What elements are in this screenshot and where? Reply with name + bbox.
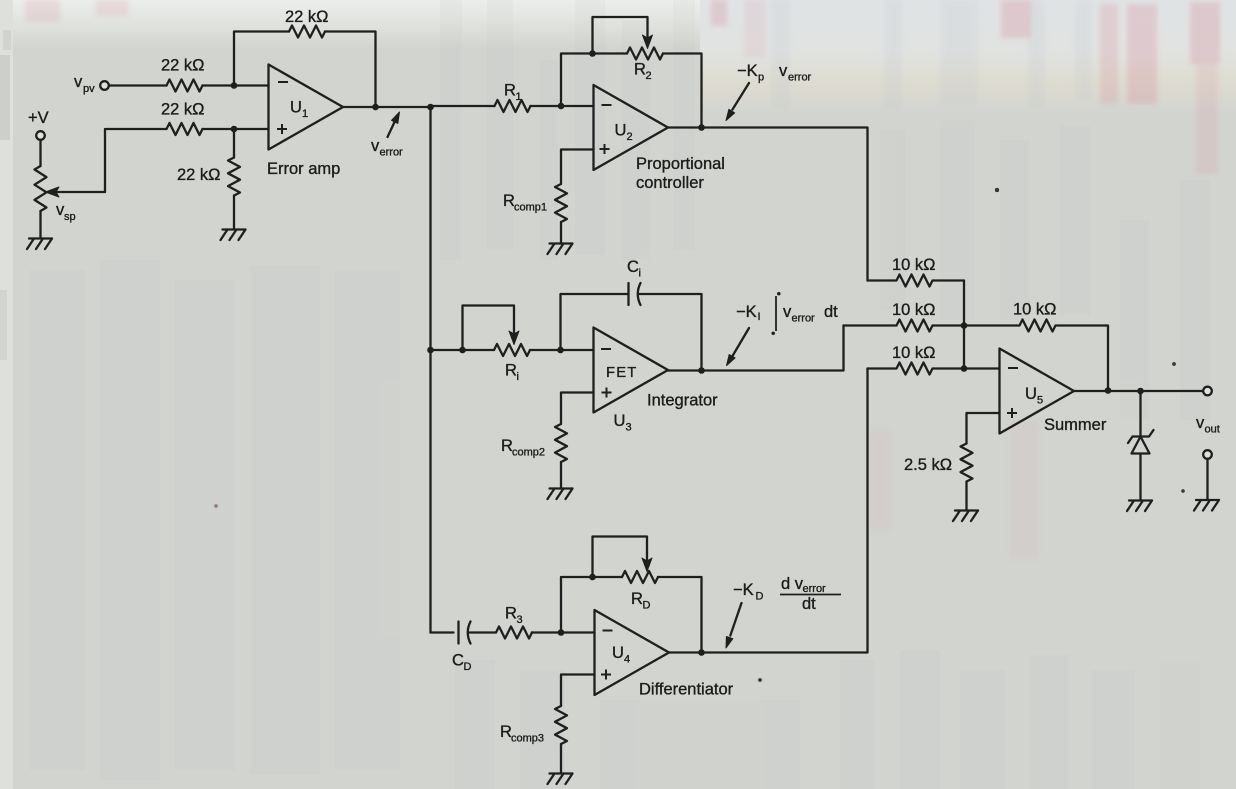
- svg-text:C: C: [452, 652, 464, 670]
- op-amp U4: [595, 610, 670, 695]
- wire Rcomp2 to ground: [560, 462, 562, 488]
- svg-text:2: 2: [646, 70, 652, 82]
- svg-text:error: error: [792, 313, 816, 325]
- wire RD wiper loop: [593, 537, 648, 578]
- svg-text:U: U: [612, 644, 624, 662]
- node bus top: [427, 104, 434, 111]
- resistor 10k from proportional: [868, 275, 965, 287]
- U2 minus sign: [602, 104, 612, 106]
- ink specks: [995, 188, 999, 192]
- svg-text:FET: FET: [606, 365, 638, 381]
- wire R to U1 plus: [203, 128, 269, 130]
- wire bus to Ri: [431, 349, 495, 351]
- svg-text:−K: −K: [733, 581, 754, 599]
- v_error arrow: [388, 121, 396, 137]
- node U4 inverting: [558, 629, 565, 636]
- U1 plus sign: [277, 124, 287, 134]
- node U3 inverting: [557, 347, 564, 354]
- wire U1 output: [343, 106, 431, 108]
- U5 plus sign: [1007, 408, 1017, 418]
- U4 minus sign: [603, 630, 613, 632]
- potentiometer Ri body: [494, 344, 530, 356]
- wire v_pv to R: [109, 84, 167, 86]
- wire RD to right riser: [658, 577, 702, 653]
- svg-text:v: v: [779, 62, 788, 80]
- svg-text:1: 1: [302, 108, 308, 120]
- svg-text:U: U: [615, 122, 627, 140]
- potentiometer R2 body: [627, 48, 663, 60]
- R2 wiper arrowhead: [643, 35, 653, 49]
- wire 2.5k to ground: [965, 482, 967, 511]
- zener diode cathode: [1128, 430, 1154, 443]
- svg-text:4: 4: [624, 654, 630, 666]
- svg-text:2.5 kΩ: 2.5 kΩ: [904, 456, 952, 474]
- wire RD feedback riser: [561, 577, 622, 633]
- node bus integrator tap: [427, 347, 434, 354]
- svg-text:10 kΩ: 10 kΩ: [892, 301, 936, 319]
- op-amp U3: [594, 328, 669, 413]
- U4 plus sign: [601, 670, 611, 680]
- svg-text:comp3: comp3: [511, 733, 544, 745]
- U1 minus sign: [278, 81, 288, 83]
- svg-text:comp2: comp2: [512, 447, 545, 459]
- wire U3 output: [668, 326, 844, 371]
- svg-text:+V: +V: [28, 109, 49, 127]
- svg-text:10 kΩ: 10 kΩ: [892, 256, 936, 274]
- svg-text:Integrator: Integrator: [647, 392, 718, 410]
- svg-text:22 kΩ: 22 kΩ: [161, 57, 205, 75]
- U3 plus sign: [602, 388, 612, 398]
- ground 2.5k: [953, 511, 978, 522]
- node summing bottom: [961, 365, 968, 372]
- svg-text:R: R: [504, 82, 516, 100]
- -KD label arrow: [730, 603, 741, 636]
- wire R2 wiper loop: [593, 17, 648, 54]
- wire wiper to R input2: [105, 129, 167, 192]
- svg-text:22 kΩ: 22 kΩ: [161, 101, 205, 119]
- wire feedback to output: [325, 32, 376, 108]
- svg-text:v: v: [74, 73, 83, 91]
- resistor R1: [495, 100, 531, 112]
- wire feedback riser left: [234, 32, 289, 86]
- svg-text:R: R: [505, 605, 517, 623]
- terminal v_pv: [100, 81, 109, 90]
- svg-text:Proportional: Proportional: [636, 155, 725, 173]
- wire bus bottom corner to CD: [431, 631, 454, 633]
- RD wiper arrowhead: [642, 558, 652, 572]
- svg-text:error: error: [380, 147, 404, 159]
- ground Rcomp1: [548, 244, 573, 255]
- svg-text:D: D: [464, 661, 472, 673]
- op-amp U1: [269, 65, 344, 150]
- ground Rcomp3: [548, 774, 573, 785]
- svg-text:out: out: [1205, 424, 1220, 436]
- svg-text:error: error: [788, 72, 812, 84]
- node U3 output: [698, 367, 705, 374]
- svg-text:sp: sp: [64, 211, 76, 223]
- svg-text:22 kΩ: 22 kΩ: [177, 166, 221, 184]
- wire resistor to ground: [233, 196, 235, 230]
- resistor Rcomp3: [555, 706, 567, 744]
- svg-text:22 kΩ: 22 kΩ: [285, 8, 329, 26]
- capacitor Ci right plate: [638, 283, 641, 305]
- svg-text:5: 5: [1037, 395, 1043, 407]
- -Kp label arrow: [732, 83, 749, 110]
- svg-text:R: R: [631, 590, 643, 608]
- -KI label arrow: [733, 328, 750, 356]
- node U1 output feedback: [372, 104, 379, 111]
- integral sign: [775, 296, 777, 331]
- wire Ri to U3 minus: [530, 349, 594, 351]
- wire U2 feedback riser: [561, 54, 627, 107]
- resistor 22k input1: [167, 80, 203, 92]
- wire CD to R3: [469, 631, 497, 633]
- wire U3 plus input: [561, 393, 594, 425]
- wire main bus vertical: [429, 107, 431, 633]
- U5 minus sign: [1008, 367, 1018, 369]
- wire zener branch: [1139, 391, 1141, 437]
- wire U5 output: [1074, 390, 1203, 392]
- resistor 22k to ground: [228, 158, 240, 196]
- svg-text:C: C: [627, 258, 639, 276]
- svg-text:Summer: Summer: [1044, 416, 1107, 434]
- capacitor CD right plate: [468, 622, 471, 644]
- terminal v_out: [1203, 387, 1212, 396]
- wire U5 plus input: [967, 413, 1000, 444]
- svg-text:U: U: [1025, 385, 1037, 403]
- svg-text:10 kΩ: 10 kΩ: [1013, 301, 1057, 319]
- node zener tap: [1137, 388, 1144, 395]
- resistor Rcomp1: [555, 184, 567, 222]
- svg-text:I: I: [758, 311, 761, 323]
- svg-text:controller: controller: [636, 174, 704, 192]
- node minus junction: [231, 82, 238, 89]
- page left edge: [0, 0, 13, 789]
- resistor 10k from integrator: [844, 320, 965, 332]
- potentiometer RD body: [622, 571, 658, 583]
- op-amp U5: [1000, 349, 1075, 434]
- svg-text:3: 3: [517, 614, 523, 626]
- node U4 output: [698, 649, 705, 656]
- Ri wiper arrowhead: [509, 331, 519, 345]
- node U2 inverting: [558, 103, 565, 110]
- ground pot: [27, 239, 52, 250]
- svg-text:R: R: [505, 362, 517, 380]
- resistor R3: [496, 627, 532, 639]
- wire U2 output: [668, 128, 868, 281]
- node plus junction: [231, 126, 238, 133]
- op-amp U2: [594, 85, 669, 170]
- resistor 22k feedback: [289, 26, 325, 38]
- wire U4 output: [669, 369, 868, 653]
- svg-text:U: U: [614, 412, 626, 430]
- wire U4 plus input: [561, 675, 595, 707]
- potentiometer v_sp body: [35, 166, 47, 211]
- wire +V to pot: [39, 140, 41, 166]
- wire Ci feedback riser: [561, 294, 629, 350]
- capacitor CD left plate: [457, 622, 459, 644]
- svg-text:1: 1: [516, 91, 522, 103]
- wire R2 to right riser: [663, 54, 702, 128]
- node Ri loop left: [459, 347, 466, 354]
- svg-text:10 kΩ: 10 kΩ: [892, 344, 936, 362]
- node summing mid: [961, 322, 968, 329]
- zener diode anode triangle: [1132, 437, 1150, 454]
- wire R to U1 minus: [203, 84, 269, 86]
- resistor 10k from differentiator: [868, 363, 1000, 375]
- terminal +V: [36, 131, 45, 140]
- pot wiper arrow: [56, 191, 105, 193]
- svg-text:p: p: [758, 72, 764, 84]
- svg-text:dt: dt: [802, 595, 816, 613]
- svg-text:2: 2: [627, 131, 633, 143]
- svg-text:pv: pv: [83, 83, 95, 95]
- svg-text:−K: −K: [736, 303, 757, 321]
- svg-text:d v: d v: [781, 575, 804, 593]
- U2 plus sign: [600, 144, 610, 154]
- U3 minus sign: [601, 348, 611, 350]
- terminal v_out return: [1203, 450, 1212, 459]
- wire R1 to U2 minus: [531, 105, 594, 107]
- capacitor Ci left plate: [627, 283, 629, 305]
- node R2 loop tap: [589, 50, 596, 57]
- svg-text:D: D: [756, 591, 764, 603]
- svg-text:Differentiator: Differentiator: [639, 681, 734, 699]
- svg-text:dt: dt: [824, 303, 838, 321]
- svg-text:comp1: comp1: [514, 202, 547, 214]
- wire U2 plus input: [561, 150, 594, 185]
- svg-text:U: U: [290, 99, 302, 117]
- wire zener to ground: [1139, 454, 1141, 501]
- wire pot to ground: [39, 211, 41, 238]
- ground return: [1194, 500, 1219, 511]
- wire R3 to U4 minus: [532, 631, 595, 633]
- ground 22k: [221, 230, 246, 241]
- resistor Rcomp2: [555, 424, 567, 462]
- svg-text:i: i: [639, 268, 641, 280]
- svg-text:D: D: [643, 600, 651, 612]
- wire Rcomp3 to ground: [560, 744, 562, 773]
- resistor 2.5k: [961, 444, 973, 482]
- wire Ri wiper loop: [463, 306, 515, 351]
- svg-text:i: i: [517, 371, 519, 383]
- ground zener: [1127, 501, 1152, 512]
- svg-text:3: 3: [626, 422, 632, 434]
- wire Rcomp1 to ground: [560, 222, 562, 243]
- svg-text:−K: −K: [737, 62, 758, 80]
- wire node to 22k gnd resistor: [233, 129, 235, 158]
- svg-text:error: error: [803, 583, 827, 595]
- resistor 22k input2: [167, 123, 203, 135]
- resistor 10k summer feedback: [964, 320, 1108, 391]
- wire bus to R1: [431, 105, 495, 107]
- node RD loop tap: [589, 574, 596, 581]
- wire Ci to right riser: [639, 294, 702, 371]
- wire summing node vertical: [963, 281, 965, 369]
- svg-text:Error amp: Error amp: [267, 160, 340, 178]
- node U2 output: [698, 124, 705, 131]
- node feedback join: [1105, 387, 1112, 394]
- svg-text:R: R: [634, 61, 646, 79]
- wire return to ground: [1206, 459, 1208, 500]
- ground Rcomp2: [548, 489, 573, 500]
